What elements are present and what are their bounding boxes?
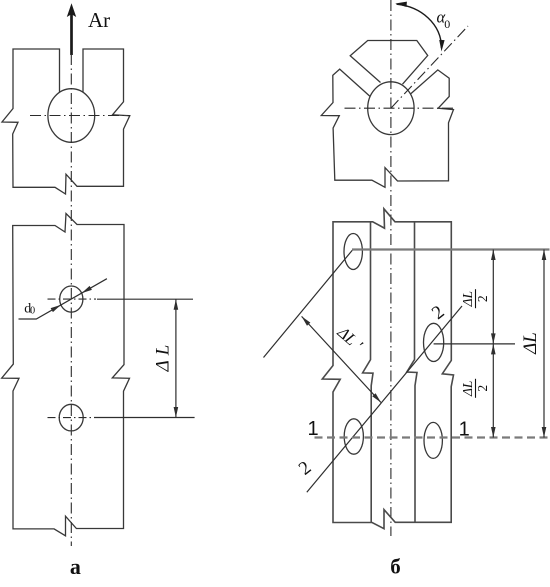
specimen A upper plate outline with slot and break lines	[2, 49, 130, 194]
electrode hexagonal tip	[350, 41, 428, 85]
hole ellipse 1 (top left)	[344, 234, 362, 270]
horizontal centerline of lower tack hole	[48, 417, 93, 419]
label dL rotated (right dimension)	[520, 332, 541, 355]
section line 2-2	[307, 306, 462, 492]
section labels 2 rotated	[295, 457, 315, 479]
weld seam right edge (inner vertical) with break	[407, 222, 417, 523]
dimension extension line lower	[94, 417, 195, 419]
svg-text:0: 0	[30, 305, 35, 316]
weld pool circle of figure b	[368, 82, 414, 135]
svg-text:ΔL: ΔL	[520, 332, 541, 355]
extension line from ellipse 2	[434, 343, 515, 345]
horizontal dash-dot centerline of weld pool	[345, 107, 455, 109]
dimension line dL	[175, 299, 177, 417]
dimension extension line upper (through d0 hole)	[97, 298, 193, 300]
d0 arrowhead upper-right	[82, 286, 92, 293]
vertical dash-dot centerline of specimen A	[70, 54, 72, 546]
dL-prime dimension arrow (perpendicular distance)	[302, 316, 381, 402]
d0 diameter leader line	[19, 279, 107, 319]
label dL rotated	[153, 340, 174, 373]
svg-text:0: 0	[444, 17, 450, 31]
lower tack hole	[59, 404, 83, 431]
V-groove plates outline (joined)	[321, 69, 453, 187]
svg-text:а: а	[70, 554, 81, 579]
specimen A lower plate outline with break lines	[2, 214, 130, 536]
hole ellipse 4 (bottom right)	[424, 422, 442, 458]
d0 arrowhead lower-left	[51, 305, 61, 312]
svg-text:б: б	[390, 555, 401, 579]
dimension line dL/2 segments	[492, 250, 494, 438]
inclined reference line through ellipse 1	[264, 250, 353, 357]
horizontal dash-dot centerline through hole	[30, 115, 130, 117]
svg-text:Ar: Ar	[88, 8, 110, 32]
dashed section line 1-1	[315, 436, 550, 438]
alpha0 angle arc	[397, 4, 442, 48]
dimension line dL (right)	[543, 250, 545, 438]
label dL/2 fraction rotated	[460, 379, 490, 398]
weld seam left edge (inner vertical) with break	[363, 222, 373, 523]
hole ellipse 2 (middle right)	[424, 323, 444, 361]
upper tack hole d0	[60, 286, 83, 312]
svg-text:1: 1	[307, 418, 318, 440]
svg-text:2: 2	[475, 295, 490, 302]
label dL-prime rotated	[333, 322, 366, 355]
svg-text:ΔL: ΔL	[460, 291, 475, 307]
inclined electrode axis dash-dot	[391, 26, 468, 108]
welded plate outline with break lines	[322, 209, 453, 529]
Ar gas flow arrow	[70, 13, 73, 55]
label dL/2 fraction rotated	[460, 289, 490, 308]
svg-text:1: 1	[459, 418, 470, 440]
gray extension line from ellipse 1	[352, 248, 550, 250]
horizontal centerline of upper tack hole	[48, 298, 97, 300]
hole ellipse 3 (bottom left)	[344, 419, 363, 454]
vertical dash-dot centerline of figure b	[390, 0, 392, 536]
svg-text:ΔL: ΔL	[153, 340, 174, 373]
svg-text:2: 2	[475, 385, 490, 392]
svg-text:ΔL: ΔL	[460, 381, 475, 397]
hole (weld pool) circle of specimen A	[48, 89, 95, 143]
